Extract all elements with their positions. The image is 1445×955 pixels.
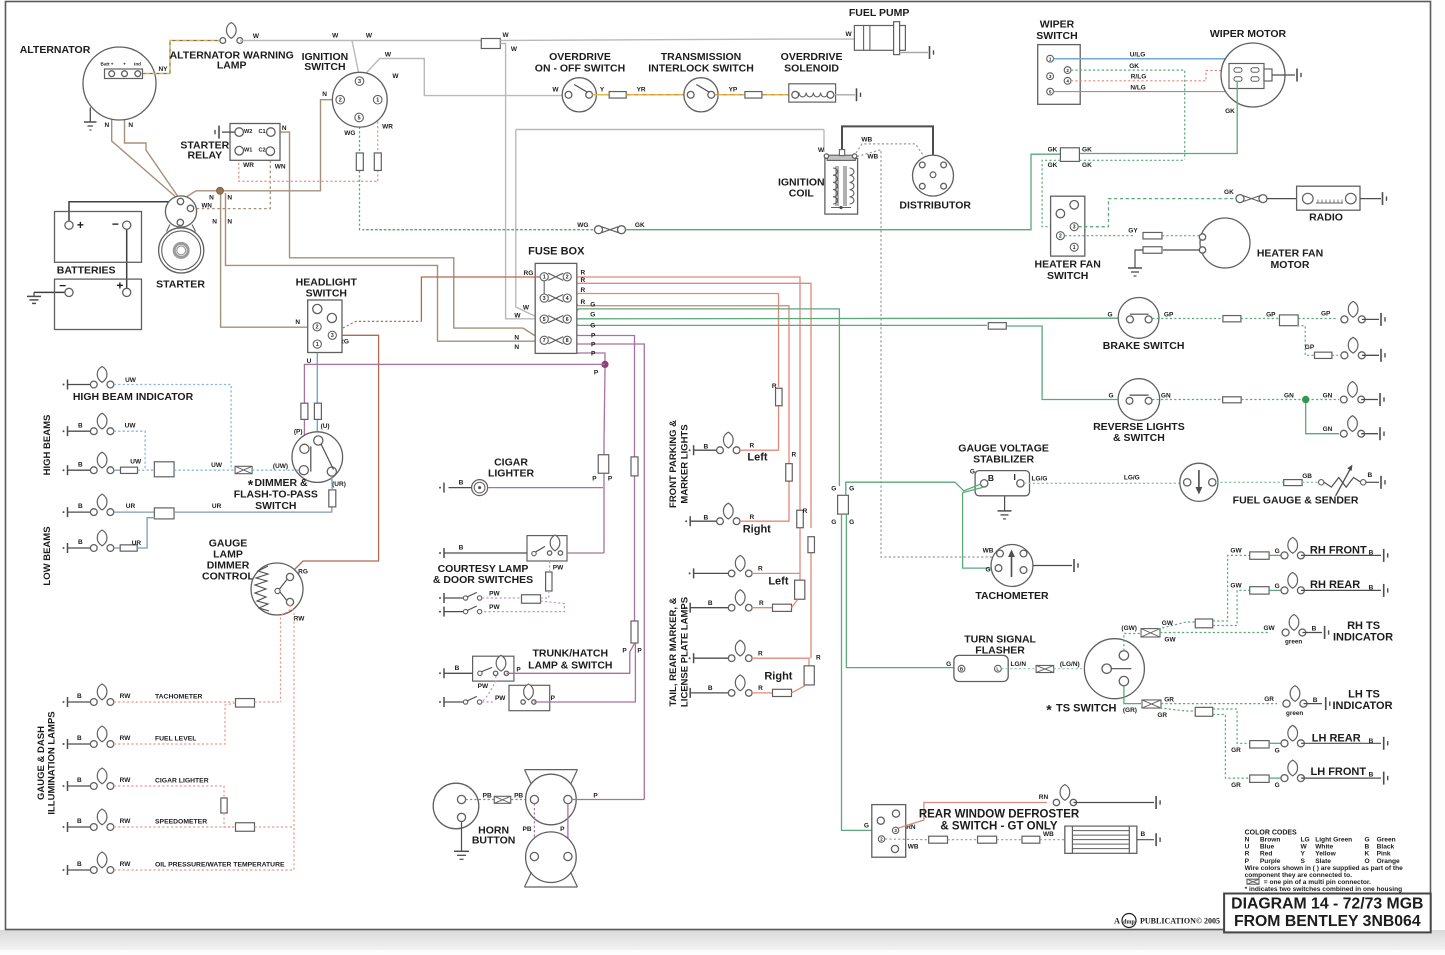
svg-text:GK: GK [1225,108,1235,115]
svg-text:RH FRONT: RH FRONT [1310,544,1367,556]
svg-text:RW: RW [120,818,132,825]
svg-text:LG: LG [1301,837,1310,844]
svg-text:G: G [985,566,990,573]
svg-text:TS SWITCH: TS SWITCH [1056,703,1117,715]
svg-text:L: L [996,666,999,672]
svg-text:WN: WN [202,203,213,210]
svg-text:ALTERNATOR: ALTERNATOR [20,44,91,56]
svg-text:LH FRONT: LH FRONT [1310,766,1366,778]
svg-text:PW: PW [489,591,500,598]
svg-text:GY: GY [1128,228,1138,235]
svg-text:R: R [581,299,586,306]
svg-text:RADIO: RADIO [1309,212,1343,224]
svg-text:GAUGE & DASH: GAUGE & DASH [36,726,47,800]
svg-text:2: 2 [566,275,569,281]
svg-text:* indicates two switches combi: * indicates two switches combined in one… [1245,886,1403,893]
svg-text:GK: GK [1048,162,1058,169]
svg-text:G: G [946,661,951,668]
svg-text:P: P [591,333,596,340]
svg-text:WN: WN [275,164,286,171]
svg-text:TAIL, REAR MARKER, &: TAIL, REAR MARKER, & [668,597,679,706]
svg-text:Ind: Ind [134,61,141,66]
svg-text:LG/G: LG/G [1124,474,1140,481]
svg-text:3: 3 [543,296,546,302]
svg-text:W1: W1 [244,147,252,153]
svg-text:TACHOMETER: TACHOMETER [155,694,203,701]
svg-text:R: R [1245,851,1250,858]
svg-text:RG: RG [298,569,308,576]
svg-text:N: N [295,319,300,326]
svg-text:WR: WR [382,124,393,131]
svg-text:B: B [1312,625,1317,632]
svg-text:G: G [590,323,595,330]
svg-text:B: B [77,818,82,825]
svg-text:P: P [591,341,596,348]
svg-text:RG: RG [524,270,534,277]
svg-text:CIGAR: CIGAR [494,456,528,468]
svg-text:PW: PW [478,683,489,690]
svg-text:STABILIZER: STABILIZER [973,453,1034,465]
svg-text:dmp: dmp [1123,919,1135,925]
svg-text:W2: W2 [244,129,252,135]
svg-text:GK: GK [1082,162,1092,169]
svg-text:PB: PB [514,792,523,799]
svg-text:GW: GW [1230,582,1242,589]
svg-text:GW: GW [1230,548,1242,555]
svg-text:+: + [123,61,126,66]
svg-text:SWITCH: SWITCH [304,61,345,73]
svg-text:G: G [849,485,854,492]
svg-text:BATTERIES: BATTERIES [57,265,116,277]
svg-text:ILLUMINATION LAMPS: ILLUMINATION LAMPS [47,711,58,814]
svg-text:G: G [970,469,975,476]
svg-text:green: green [1286,710,1303,717]
svg-text:YP: YP [729,87,738,94]
svg-text:RW: RW [120,735,132,742]
svg-text:RW: RW [120,693,132,700]
svg-text:R: R [758,651,763,658]
svg-text:FUEL PUMP: FUEL PUMP [849,7,909,19]
svg-text:C2: C2 [259,147,266,153]
svg-text:6: 6 [566,317,569,323]
svg-text:WIPER: WIPER [1040,19,1075,31]
svg-text:3: 3 [358,79,361,85]
svg-text:P: P [637,648,642,655]
svg-text:GR: GR [1264,696,1274,703]
svg-text:COLOR CODES: COLOR CODES [1245,830,1297,837]
svg-text:Green: Green [1377,837,1396,844]
svg-text:Purple: Purple [1260,858,1281,865]
svg-text:UR: UR [126,503,136,510]
svg-text:P: P [591,351,596,358]
svg-text:(GW): (GW) [1121,625,1137,632]
svg-text:LAMP & SWITCH: LAMP & SWITCH [528,660,612,672]
svg-text:LICENSE PLATE LAMPS: LICENSE PLATE LAMPS [680,597,691,707]
svg-text:= one pin of a multi pin conne: = one pin of a multi pin connector. [1264,879,1371,886]
svg-text:(U): (U) [321,423,330,430]
svg-text:REAR WINDOW DEFROSTER: REAR WINDOW DEFROSTER [919,809,1080,821]
svg-text:A: A [1114,917,1120,926]
svg-text:Red: Red [1260,851,1272,858]
svg-text:TRANSMISSION: TRANSMISSION [661,51,742,63]
svg-text:G: G [1108,392,1113,399]
svg-text:Right: Right [764,671,792,683]
svg-text:WB: WB [861,137,872,144]
svg-text:(GR): (GR) [1123,707,1137,714]
svg-text:5: 5 [358,115,361,121]
svg-text:G: G [831,519,836,526]
svg-text:P: P [593,792,598,799]
svg-text:R: R [803,508,808,515]
svg-text:GW: GW [1263,625,1275,632]
svg-text:Wire colors shown in ( ) are s: Wire colors shown in ( ) are supplied as… [1245,865,1404,872]
svg-text:+: + [77,218,84,232]
svg-text:N: N [514,344,519,351]
svg-text:GR: GR [1231,782,1241,789]
svg-text:R: R [581,269,586,276]
svg-text:DIAGRAM 14 - 72/73 MGB: DIAGRAM 14 - 72/73 MGB [1231,896,1423,913]
svg-text:ON - OFF SWITCH: ON - OFF SWITCH [535,63,625,75]
svg-text:B: B [78,503,83,510]
svg-text:R: R [759,600,764,607]
svg-text:R: R [750,514,755,521]
svg-text:U: U [1245,844,1250,851]
svg-text:Black: Black [1377,844,1395,851]
svg-text:K: K [1365,851,1370,858]
svg-text:N/LG: N/LG [1130,84,1146,91]
svg-text:W: W [392,73,399,80]
svg-text:HIGH BEAMS: HIGH BEAMS [42,415,53,476]
svg-text:PB: PB [522,826,531,833]
svg-text:2: 2 [1066,68,1069,73]
svg-text:(LG/N): (LG/N) [1060,661,1080,668]
svg-text:LG/N: LG/N [1011,661,1027,668]
svg-text:B: B [1369,772,1374,779]
svg-text:PUBLICATION: PUBLICATION [1140,917,1196,926]
svg-text:White: White [1315,844,1333,851]
svg-text:(P): (P) [294,429,303,436]
svg-text:PB: PB [483,792,492,799]
svg-text:RH REAR: RH REAR [1310,579,1360,591]
svg-text:GR: GR [1164,696,1174,703]
svg-text:GN: GN [1323,392,1333,399]
svg-text:DISTRIBUTOR: DISTRIBUTOR [899,199,971,211]
svg-text:SWITCH: SWITCH [306,287,347,299]
svg-text:INDICATOR: INDICATOR [1332,700,1392,712]
svg-text:GN: GN [1284,392,1294,399]
svg-text:W: W [503,32,510,39]
svg-text:W: W [385,52,392,59]
svg-text:UR: UR [212,503,222,510]
svg-text:UR: UR [132,540,142,547]
svg-text:W: W [332,33,339,40]
svg-text:N: N [282,125,287,132]
svg-text:B: B [1369,738,1374,745]
svg-text:B: B [77,861,82,868]
svg-text:P: P [608,476,613,483]
svg-text:Orange: Orange [1377,858,1400,865]
svg-text:B: B [708,685,713,692]
svg-text:U/LG: U/LG [1130,52,1146,59]
svg-text:Brown: Brown [1260,837,1281,844]
svg-text:N: N [128,122,133,129]
svg-text:(UR): (UR) [332,481,346,488]
svg-text:Left: Left [768,576,789,588]
svg-text:LH TS: LH TS [1348,688,1380,700]
svg-text:4: 4 [1066,78,1069,83]
svg-text:3: 3 [331,333,334,339]
svg-text:TRUNK/HATCH: TRUNK/HATCH [532,648,608,660]
svg-text:Left: Left [747,451,768,463]
svg-text:FLASH-TO-PASS: FLASH-TO-PASS [234,489,318,501]
svg-text:W: W [366,33,373,40]
svg-text:1: 1 [543,275,546,281]
svg-text:GK: GK [1048,146,1058,153]
svg-text:I: I [1014,472,1016,482]
svg-text:W: W [523,305,530,312]
svg-text:W: W [1301,844,1308,851]
svg-text:G: G [831,485,836,492]
svg-text:UW: UW [130,458,142,465]
svg-text:B: B [988,473,994,483]
svg-text:+: + [116,279,123,293]
svg-text:B: B [455,665,460,672]
svg-text:O: O [1365,858,1370,865]
svg-text:N: N [322,91,327,98]
svg-text:G: G [1107,312,1112,319]
svg-text:B: B [77,735,82,742]
svg-text:INDICATOR: INDICATOR [1333,632,1393,644]
svg-text:SPEEDOMETER: SPEEDOMETER [155,819,207,826]
svg-text:G: G [1275,747,1280,754]
svg-text:N: N [514,334,519,341]
svg-text:SWITCH: SWITCH [255,500,296,512]
svg-text:YR: YR [637,87,646,94]
svg-text:FLASHER: FLASHER [975,644,1025,656]
svg-text:7: 7 [543,338,546,344]
svg-text:WB: WB [908,843,919,850]
svg-text:1: 1 [1049,56,1052,61]
svg-text:GK: GK [1224,189,1234,196]
svg-text:PW: PW [489,604,500,611]
svg-text:2: 2 [339,98,342,104]
svg-text:G: G [1275,782,1280,789]
svg-text:N: N [104,122,109,129]
svg-text:G: G [590,311,595,318]
svg-text:GP: GP [1305,344,1315,351]
svg-text:CIGAR LIGHTER: CIGAR LIGHTER [155,778,209,785]
svg-text:LIGHTER: LIGHTER [488,468,534,480]
svg-text:N: N [227,194,232,201]
svg-text:G: G [864,823,869,830]
svg-text:RH TS: RH TS [1347,620,1380,632]
svg-text:GR: GR [1231,747,1241,754]
svg-text:B: B [1368,472,1373,479]
svg-text:B: B [459,545,464,552]
svg-text:WB: WB [983,547,994,554]
svg-text:B: B [78,461,83,468]
svg-text:P: P [1245,858,1250,865]
svg-text:N: N [227,219,232,226]
svg-text:& DOOR SWITCHES: & DOOR SWITCHES [433,574,533,586]
svg-text:G: G [849,519,854,526]
svg-text:CONTROL: CONTROL [202,571,254,583]
svg-text:RW: RW [120,861,132,868]
svg-text:MOTOR: MOTOR [1271,259,1310,271]
svg-text:SWITCH: SWITCH [1047,270,1088,282]
svg-text:SOLENOID: SOLENOID [784,63,839,75]
svg-text:GN: GN [1323,426,1333,433]
svg-text:WG: WG [344,130,355,137]
svg-text:TACHOMETER: TACHOMETER [975,590,1049,602]
svg-text:W: W [818,147,825,154]
svg-text:LAMP: LAMP [217,60,247,72]
svg-text:G: G [1275,583,1280,590]
svg-text:G: G [1275,548,1280,555]
svg-text:R: R [772,383,777,390]
svg-text:1: 1 [1073,245,1076,251]
svg-text:UW: UW [125,377,137,384]
svg-text:R: R [791,451,796,458]
svg-text:Slate: Slate [1315,858,1331,865]
svg-text:COIL: COIL [789,187,815,199]
svg-text:UW: UW [125,422,137,429]
svg-text:Batt +: Batt + [101,61,114,66]
svg-text:GP: GP [1266,312,1276,319]
svg-text:R: R [758,565,763,572]
svg-text:B: B [960,666,964,672]
svg-text:GP: GP [1321,310,1331,317]
svg-text:(UW): (UW) [273,463,288,470]
svg-text:B: B [1365,844,1370,851]
svg-text:3: 3 [1049,74,1052,79]
svg-text:R: R [581,277,586,284]
svg-text:GK: GK [1082,146,1092,153]
svg-text:GK: GK [635,222,645,229]
svg-text:WIPER MOTOR: WIPER MOTOR [1210,28,1287,40]
svg-text:GN: GN [1161,392,1171,399]
svg-text:W: W [552,87,559,94]
svg-text:W: W [514,313,521,320]
svg-text:PW: PW [495,695,506,702]
svg-text:WB: WB [867,154,878,161]
svg-text:B: B [1313,697,1318,704]
svg-text:WG: WG [577,222,588,229]
svg-text:Yellow: Yellow [1315,851,1336,858]
svg-text:B: B [704,444,709,451]
svg-text:GB: GB [1302,473,1312,480]
svg-text:LOW BEAMS: LOW BEAMS [42,526,53,585]
svg-text:BUTTON: BUTTON [472,835,516,847]
svg-text:Y: Y [1301,851,1306,858]
svg-text:P: P [592,476,597,483]
svg-text:GP: GP [1164,312,1174,319]
svg-text:RW: RW [294,616,306,623]
svg-text:R/LG: R/LG [1131,74,1147,81]
svg-text:B: B [78,422,83,429]
svg-text:FUSE BOX: FUSE BOX [528,246,585,258]
svg-text:P: P [594,370,599,377]
svg-text:Blue: Blue [1260,844,1275,851]
svg-text:OVERDRIVE: OVERDRIVE [549,51,611,63]
svg-text:NY: NY [158,66,168,73]
svg-text:PW: PW [553,565,564,572]
svg-text:GR: GR [1157,712,1167,719]
svg-text:G: G [590,302,595,309]
svg-text:Light Green: Light Green [1315,837,1352,844]
svg-text:© 2005: © 2005 [1196,917,1220,926]
svg-text:4: 4 [566,296,569,302]
svg-text:B: B [77,693,82,700]
svg-text:P: P [622,648,627,655]
svg-text:W: W [846,31,853,38]
svg-text:MARKER LIGHTS: MARKER LIGHTS [680,424,691,503]
svg-text:HEATER FAN: HEATER FAN [1035,259,1101,271]
svg-text:W: W [511,46,518,53]
svg-text:FROM BENTLEY 3NB064: FROM BENTLEY 3NB064 [1234,913,1421,930]
svg-text:W: W [253,33,260,40]
svg-text:B: B [704,514,709,521]
svg-text:& SWITCH - GT ONLY: & SWITCH - GT ONLY [940,820,1057,832]
svg-text:R: R [750,443,755,450]
svg-text:B: B [708,600,713,607]
svg-text:3: 3 [1073,225,1076,231]
svg-text:FUEL GAUGE & SENDER: FUEL GAUGE & SENDER [1233,494,1359,506]
svg-text:P: P [560,826,565,833]
svg-text:BRAKE SWITCH: BRAKE SWITCH [1103,340,1185,352]
svg-text:STARTER: STARTER [156,279,205,291]
svg-text:B: B [77,777,82,784]
svg-text:SWITCH: SWITCH [1036,30,1077,42]
svg-text:INTERLOCK SWITCH: INTERLOCK SWITCH [648,63,754,75]
svg-text:DIMMER &: DIMMER & [254,477,307,489]
svg-text:B: B [78,539,83,546]
svg-text:S: S [1301,858,1306,865]
svg-text:FUEL LEVEL: FUEL LEVEL [155,736,196,743]
svg-text:N: N [1245,837,1250,844]
svg-text:G: G [1365,837,1370,844]
svg-text:RW: RW [120,777,132,784]
svg-text:green: green [1285,639,1302,646]
svg-text:GK: GK [1129,63,1139,70]
svg-text:GW: GW [1164,636,1176,643]
svg-text:R: R [758,685,763,692]
svg-text:OVERDRIVE: OVERDRIVE [781,51,843,63]
svg-text:WR: WR [243,162,254,169]
svg-text:RELAY: RELAY [187,150,222,162]
svg-text:OIL PRESSURE/WATER TEMPERATURE: OIL PRESSURE/WATER TEMPERATURE [155,862,285,869]
svg-text:*: * [1046,702,1052,718]
svg-text:1: 1 [376,98,379,104]
svg-text:2: 2 [316,325,319,331]
svg-text:Y: Y [600,87,605,94]
svg-text:5: 5 [543,317,546,323]
svg-text:R: R [816,655,821,662]
svg-text:C1: C1 [259,129,266,135]
svg-text:8: 8 [566,338,569,344]
svg-text:UW: UW [211,462,223,469]
svg-text:R: R [581,287,586,294]
svg-text:−: − [112,217,119,231]
svg-text:RN: RN [1039,794,1049,801]
svg-text:HIGH BEAM INDICATOR: HIGH BEAM INDICATOR [73,391,194,403]
svg-text:P: P [551,695,556,702]
svg-text:LG/G: LG/G [1032,475,1048,482]
svg-text:2: 2 [1059,234,1062,240]
svg-text:& SWITCH: & SWITCH [1113,432,1165,444]
svg-text:N: N [209,194,214,201]
svg-text:HEATER FAN: HEATER FAN [1257,248,1323,260]
